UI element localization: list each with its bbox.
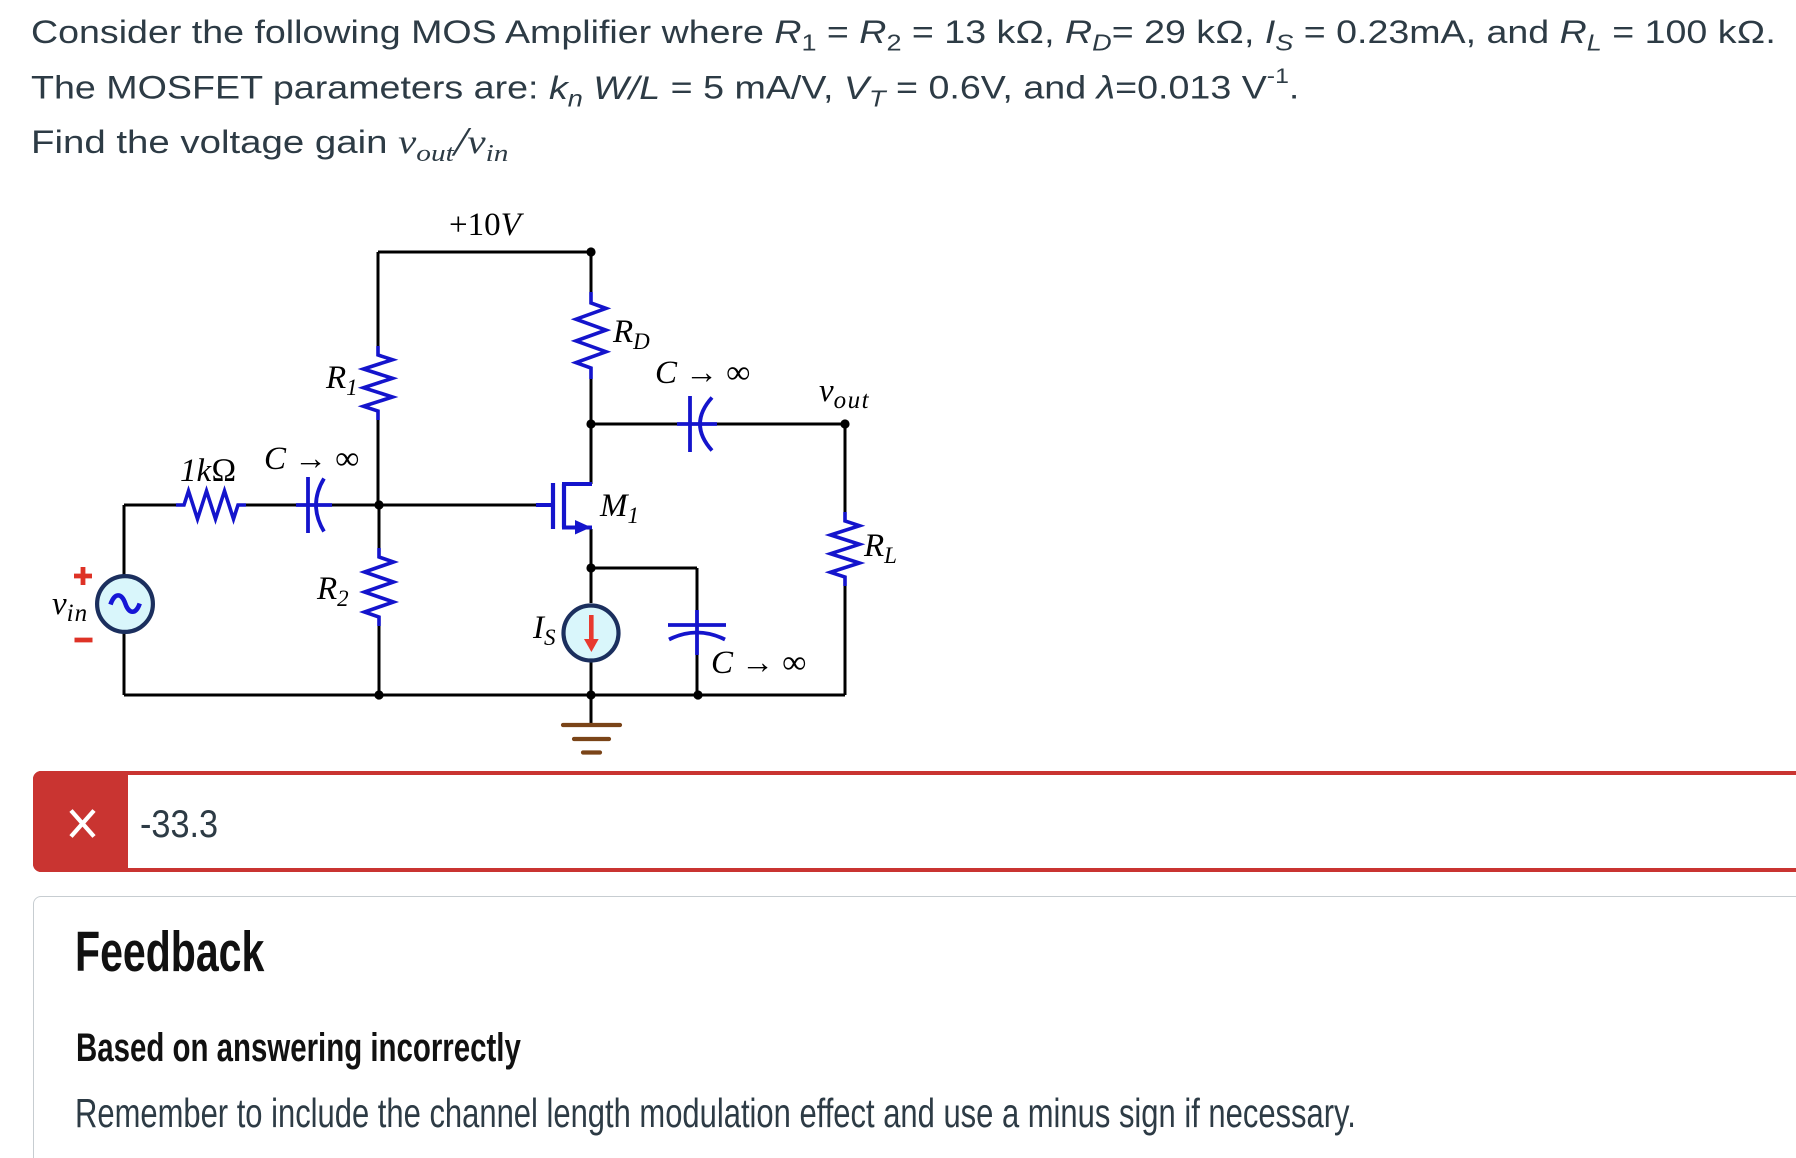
svg-text:C → ∞: C → ∞: [264, 441, 359, 477]
svg-text:R2: R2: [316, 571, 349, 611]
svg-text:C → ∞: C → ∞: [711, 645, 806, 681]
svg-text:+10V: +10V: [449, 207, 525, 243]
svg-text:vout: vout: [819, 373, 870, 414]
svg-text:1kΩ: 1kΩ: [180, 453, 237, 489]
svg-text:RL: RL: [863, 528, 897, 568]
svg-text:RD: RD: [612, 314, 650, 354]
svg-text:R1: R1: [325, 360, 358, 400]
svg-text:vin: vin: [52, 586, 88, 627]
svg-text:IS: IS: [532, 610, 556, 650]
svg-text:C → ∞: C → ∞: [655, 355, 750, 391]
svg-text:M1: M1: [599, 488, 639, 528]
